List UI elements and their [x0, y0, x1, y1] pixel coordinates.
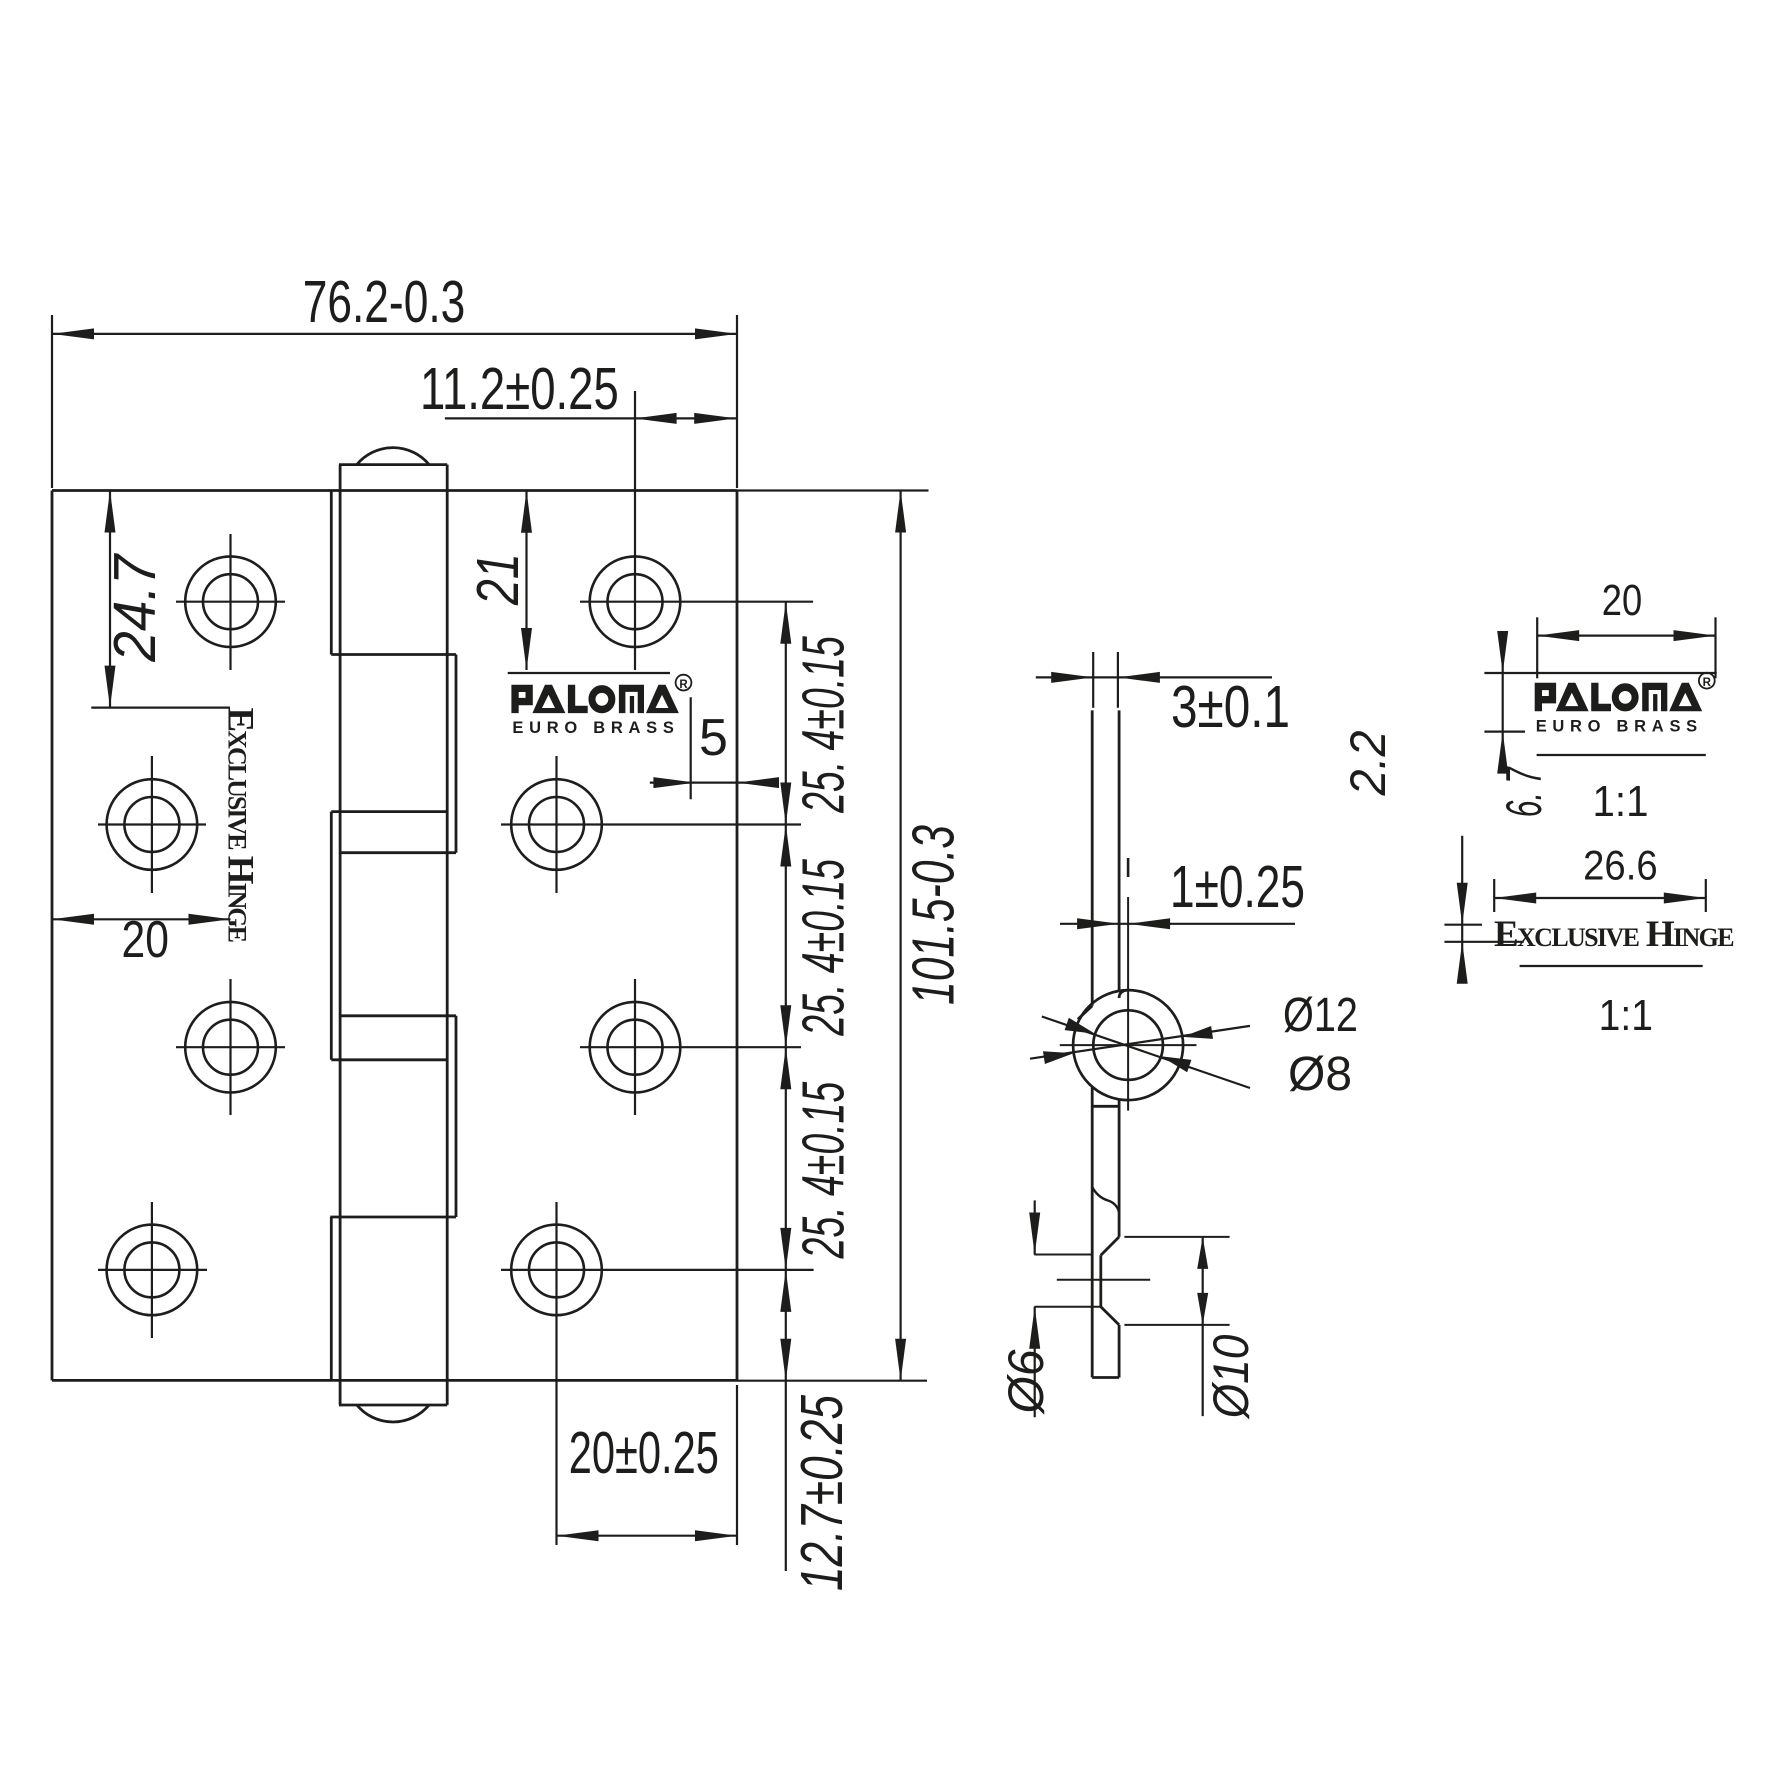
svg-text:12.7±0.25: 12.7±0.25: [789, 1395, 855, 1591]
svg-text:Ø6: Ø6: [998, 1349, 1054, 1415]
svg-text:25. 4±0.15: 25. 4±0.15: [791, 636, 857, 813]
svg-text:Exclusive Hinge: Exclusive Hinge: [1494, 914, 1735, 955]
svg-text:24.7: 24.7: [102, 553, 168, 663]
svg-text:1:1: 1:1: [1599, 991, 1653, 1040]
svg-text:Exclusive Hinge: Exclusive Hinge: [219, 708, 260, 944]
svg-text:25. 4±0.15: 25. 4±0.15: [791, 859, 857, 1036]
svg-text:20±0.25: 20±0.25: [569, 1420, 719, 1486]
svg-text:Ø8: Ø8: [1288, 1048, 1352, 1101]
svg-text:26.6: 26.6: [1583, 842, 1658, 889]
svg-text:101.5-0.3: 101.5-0.3: [900, 825, 966, 1005]
svg-text:11.2±0.25: 11.2±0.25: [420, 356, 619, 422]
svg-text:20: 20: [1602, 576, 1642, 625]
svg-text:2.2: 2.2: [1340, 730, 1396, 796]
svg-text:Ø12: Ø12: [1283, 989, 1358, 1042]
svg-text:3±0.1: 3±0.1: [1171, 674, 1290, 740]
svg-text:5: 5: [699, 709, 728, 767]
svg-text:1±0.25: 1±0.25: [1170, 854, 1305, 920]
svg-text:20: 20: [122, 911, 169, 969]
svg-text:R: R: [679, 679, 688, 691]
svg-text:EURO BRASS: EURO BRASS: [512, 719, 674, 737]
svg-text:21: 21: [465, 553, 531, 606]
svg-text:EURO BRASS: EURO BRASS: [1536, 717, 1698, 735]
svg-text:25. 4±0.15: 25. 4±0.15: [791, 1082, 857, 1259]
svg-text:6. 7: 6. 7: [1496, 766, 1552, 817]
svg-text:Ø10: Ø10: [1203, 1334, 1259, 1420]
svg-text:R: R: [1703, 677, 1712, 689]
svg-text:1:1: 1:1: [1593, 777, 1649, 826]
svg-text:76.2-0.3: 76.2-0.3: [303, 269, 466, 335]
